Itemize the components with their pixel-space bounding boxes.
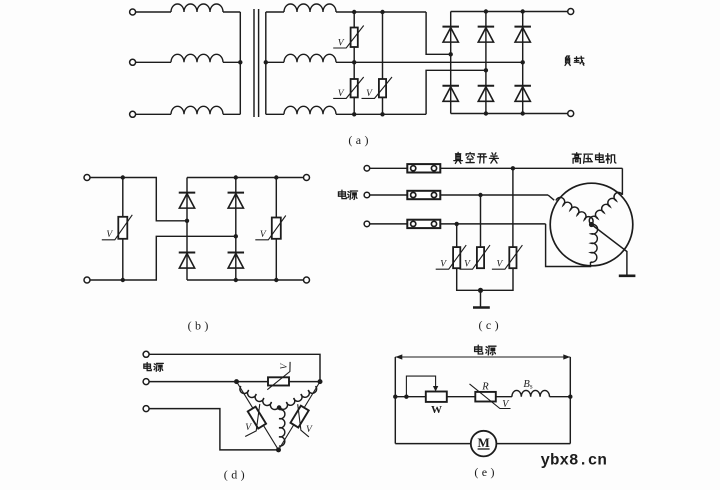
diode D7 bbox=[179, 192, 196, 194]
potentiometer W wiper wire bbox=[406, 376, 435, 397]
label 电源 (power) circuit c bbox=[338, 190, 346, 199]
node wiper tap bbox=[404, 395, 408, 399]
motor winding C bbox=[279, 409, 285, 446]
node bottom vertex bbox=[276, 447, 281, 452]
node left vertex bbox=[234, 379, 239, 384]
node top rail left bbox=[393, 395, 397, 399]
node bridge input phase2 bbox=[521, 60, 525, 64]
varistor V11 body bbox=[290, 406, 308, 428]
top rail wire segment 3 bbox=[496, 396, 512, 398]
bridge (b) right column wire bbox=[235, 178, 237, 281]
node bottom rail column bbox=[234, 278, 238, 282]
circuit (a) three-phase input terminal 1 bbox=[130, 9, 136, 15]
varistor V5 (output) bbox=[272, 218, 281, 239]
node left column midpoint bbox=[185, 219, 189, 223]
varistor R arrow bbox=[470, 384, 511, 409]
bridge rectifier column 2 wire bbox=[485, 12, 487, 114]
output varistor column wire bbox=[275, 178, 277, 281]
node phase1-varistor column1 bbox=[352, 10, 356, 14]
label 负载 (load) bbox=[565, 56, 570, 65]
delta branch wire left-right vertex bbox=[237, 381, 321, 383]
wire phase3 to switch bbox=[370, 223, 408, 225]
wire phase2 switch to motor bbox=[440, 194, 548, 196]
wire secondary bus to coil L4 bbox=[266, 11, 284, 13]
node bottom rail varistor bbox=[274, 278, 278, 282]
node phase3-varistor column2 bbox=[380, 112, 384, 116]
transformer T1 secondary coil L6 bbox=[284, 106, 336, 114]
circuit (a) three-phase input terminal 3 bbox=[130, 111, 136, 117]
varistor R body bbox=[475, 392, 496, 402]
varistor V7 bbox=[477, 247, 484, 268]
top rail wire segment 1 bbox=[395, 396, 426, 398]
diode D6 bbox=[514, 85, 531, 87]
wire phase3 to bottom vertex bbox=[149, 409, 278, 450]
vacuum switch S1 bbox=[407, 164, 440, 172]
bridge (b) top rail wire bbox=[187, 177, 307, 179]
varistor V11 arrow bbox=[298, 404, 309, 437]
motor shaft ground diagonal wire bbox=[592, 225, 627, 276]
wire phase3 step up to bridge bbox=[426, 70, 486, 114]
transformer T1 core line 1 bbox=[253, 9, 255, 117]
potentiometer W body bbox=[426, 392, 447, 402]
node varistor top tap bbox=[121, 175, 125, 179]
wire secondary bus to coil L6 bbox=[266, 113, 284, 115]
varistor V9 label V rotated bbox=[280, 363, 290, 370]
node ground junction bbox=[478, 288, 483, 293]
diode D10 bbox=[228, 252, 245, 254]
bridge (b) bottom rail wire bbox=[187, 279, 307, 281]
circuit (b) output terminal bottom bbox=[304, 277, 310, 283]
wire phase1 step down to bridge bbox=[426, 12, 451, 54]
node primary neutral junction bbox=[238, 60, 242, 64]
varistor V3 (phase1-phase3) bbox=[379, 79, 386, 97]
top rail wire segment 2 bbox=[447, 396, 476, 398]
varistor tap wire 2 bbox=[480, 195, 482, 247]
node top rail varistor bbox=[274, 175, 278, 179]
varistor V8 bbox=[509, 247, 516, 268]
svg-text:( c ): ( c ) bbox=[479, 318, 500, 332]
wire phase1 into motor bbox=[621, 168, 623, 195]
top rail wire segment 4 bbox=[550, 396, 571, 398]
node phase1-varistor column2 bbox=[380, 10, 384, 14]
wire phase1 to switch bbox=[370, 167, 408, 169]
varistor V1 (phase1-phase2) bbox=[351, 28, 358, 48]
circuit (b) output terminal top bbox=[304, 175, 310, 181]
svg-text:R: R bbox=[481, 382, 489, 393]
wire L3 to primary bus bbox=[223, 113, 240, 115]
bridge negative rail wire bbox=[451, 113, 571, 115]
varistor bottom bus wire bbox=[457, 268, 513, 290]
transformer T1 primary coil L2 bbox=[171, 54, 223, 62]
left supply wire bbox=[394, 357, 396, 444]
diode D4 bbox=[442, 85, 459, 87]
diode D9 bbox=[179, 252, 196, 254]
circuit (d) terminal phase3 bbox=[143, 406, 149, 412]
varistor V4 (input) bbox=[118, 217, 127, 239]
transformer T1 primary coil L3 bbox=[171, 106, 223, 114]
vacuum switch S2 bbox=[407, 191, 440, 199]
svg-text:ybx8.cn: ybx8.cn bbox=[541, 451, 607, 469]
node phase3 varistor tap bbox=[455, 222, 459, 226]
circuit (a) three-phase input terminal 2 bbox=[130, 59, 136, 65]
delta branch wire left-bottom vertex bbox=[237, 382, 279, 450]
right supply wire bbox=[569, 357, 571, 444]
varistor V9 body bbox=[268, 377, 289, 385]
node rail-column2 bottom bbox=[484, 111, 488, 115]
motor winding B bbox=[279, 386, 317, 409]
node winding star point bbox=[277, 405, 282, 410]
varistor column wire x=382 bbox=[382, 12, 384, 114]
transformer T1 secondary coil L5 bbox=[284, 54, 336, 62]
diode D8 bbox=[228, 192, 245, 194]
node top rail right bbox=[568, 395, 572, 399]
bridge positive rail wire bbox=[451, 11, 571, 13]
diode D2 bbox=[478, 26, 495, 28]
ground symbol (varistors) bbox=[473, 306, 490, 309]
label 真空开关 (vacuum switch) bbox=[454, 152, 463, 163]
wire terminal1 to primary coil L1 bbox=[136, 11, 171, 13]
motor winding 1 bbox=[589, 192, 622, 224]
label 电源 (power) circuit d bbox=[144, 362, 151, 370]
node varistor bottom tap bbox=[121, 278, 125, 282]
secondary neutral bus wire bbox=[265, 12, 267, 114]
motor M2 body bbox=[471, 431, 497, 457]
circuit (c) terminal phase1 bbox=[364, 166, 370, 172]
node top rail column bbox=[234, 175, 238, 179]
motor M1 body circle bbox=[550, 183, 633, 266]
bridge (b) left column wire bbox=[186, 178, 188, 281]
varistor V9 arrow bbox=[267, 362, 290, 390]
circuit (b) input terminal bottom bbox=[84, 277, 90, 283]
delta branch wire right-bottom vertex bbox=[279, 382, 321, 450]
wire phase1 to right vertex bbox=[149, 354, 320, 381]
diode D1 bbox=[442, 26, 459, 28]
varistor tap wire 1 bbox=[456, 224, 458, 247]
wire secondary phase1 horizontal bbox=[336, 11, 426, 13]
label 高压电机 (HV motor) bbox=[572, 153, 581, 163]
varistor V2 (phase2-phase3) bbox=[351, 79, 358, 97]
node right vertex bbox=[318, 379, 323, 384]
diode D3 bbox=[514, 26, 531, 28]
DC output terminal negative bbox=[568, 111, 574, 117]
svg-text:( b ): ( b ) bbox=[188, 319, 210, 333]
ground lead wire bbox=[480, 290, 482, 307]
svg-text:W: W bbox=[431, 404, 442, 416]
wire secondary phase2 horizontal bbox=[336, 61, 523, 63]
motor winding 2 bbox=[556, 197, 593, 224]
circuit (d) terminal phase1 bbox=[143, 351, 149, 357]
node bridge input phase3 bbox=[484, 68, 488, 72]
dimension line with arrows bbox=[395, 356, 570, 358]
node motor star point bbox=[589, 222, 594, 227]
circuit (c) terminal phase2 bbox=[364, 192, 370, 198]
varistor column wire x=354 bbox=[353, 12, 355, 114]
varistor tap wire 3 bbox=[512, 168, 514, 247]
input varistor column wire bbox=[122, 178, 124, 281]
bottom rail wire left bbox=[395, 443, 471, 445]
node phase1 varistor tap bbox=[511, 166, 515, 170]
wire phase2 into motor bbox=[548, 195, 554, 200]
wire phase2 to switch bbox=[370, 194, 408, 196]
motor winding A bbox=[240, 386, 279, 409]
primary neutral bus wire bbox=[239, 12, 241, 114]
varistor V6 bbox=[453, 247, 460, 268]
vacuum switch S3 bbox=[407, 220, 440, 228]
svg-text:( e ): ( e ) bbox=[474, 465, 495, 479]
circuit (d) terminal phase2 bbox=[143, 379, 149, 385]
ground symbol (motor) bbox=[619, 274, 636, 277]
inductor Bs coil bbox=[512, 390, 550, 396]
circuit (b) input terminal top bbox=[84, 175, 90, 181]
node right column midpoint bbox=[234, 234, 238, 238]
wire phase2 to left vertex bbox=[149, 381, 236, 383]
wire secondary bus to coil L5 bbox=[266, 61, 284, 63]
wire bottom input bbox=[90, 236, 236, 280]
wire phase3 switch to motor bbox=[440, 223, 545, 225]
bridge rectifier column 3 wire bbox=[522, 12, 524, 114]
transformer T1 secondary coil L4 bbox=[284, 4, 336, 12]
wire terminal3 to primary coil L3 bbox=[136, 113, 171, 115]
wire L1 to primary bus bbox=[223, 11, 240, 13]
varistor V10 arrow bbox=[245, 404, 260, 437]
label 电源 (power) circuit e bbox=[475, 345, 483, 354]
DC output terminal positive bbox=[568, 9, 574, 15]
wire top input bbox=[90, 178, 187, 221]
node rail-column2 top bbox=[484, 9, 488, 13]
wire phase1 switch to motor bbox=[440, 167, 622, 169]
wire terminal2 to primary coil L2 bbox=[136, 61, 171, 63]
svg-text:( a ): ( a ) bbox=[348, 133, 369, 147]
bottom rail wire right bbox=[496, 443, 570, 445]
node rail-column3 bottom bbox=[521, 111, 525, 115]
wire secondary phase3 horizontal bbox=[336, 113, 426, 115]
node bridge input phase1 bbox=[449, 52, 453, 56]
node phase3-varistor column1 bbox=[352, 112, 356, 116]
node rail-column3 top bbox=[521, 9, 525, 13]
node phase2-varistor column1 bbox=[352, 60, 356, 64]
svg-text:( d ): ( d ) bbox=[224, 467, 246, 481]
node phase2 varistor tap bbox=[478, 193, 482, 197]
varistor V10 body bbox=[248, 407, 266, 429]
bridge rectifier column 1 wire bbox=[450, 12, 452, 114]
transformer T1 primary coil L1 bbox=[171, 4, 223, 12]
wire phase3 down and under motor bbox=[546, 224, 591, 267]
motor winding 3 bbox=[591, 224, 598, 262]
svg-text:M: M bbox=[477, 435, 489, 450]
circuit (c) terminal phase3 bbox=[364, 221, 370, 227]
node secondary neutral junction bbox=[264, 60, 268, 64]
wire L2 to primary bus bbox=[223, 61, 240, 63]
diode D5 bbox=[478, 85, 495, 87]
transformer T1 core line 2 bbox=[258, 9, 260, 117]
